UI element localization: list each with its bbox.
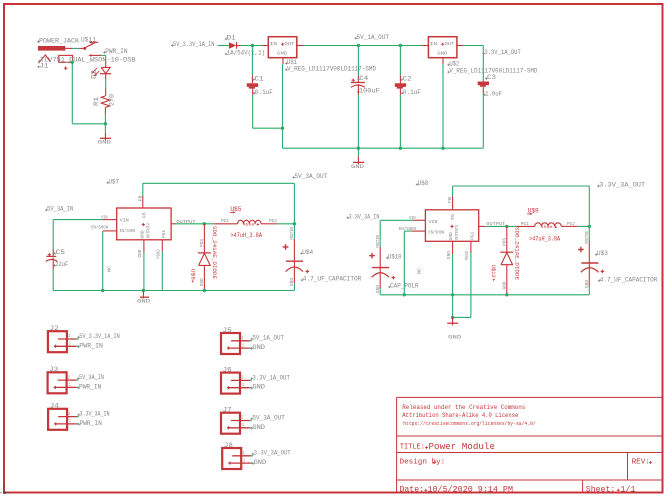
wire input to D1 (218, 45, 230, 47)
connector J8 polarity mark (229, 462, 231, 465)
U$7 EN/SHDN pad label (91, 226, 108, 231)
capacitor U$10 POSITIVE pad label (376, 234, 381, 247)
diode U$6 GND pad label (200, 278, 205, 286)
junction jack sleeve node (71, 61, 74, 64)
svg-text:C1: C1 (255, 75, 264, 82)
capacitor U$10 designator (386, 254, 402, 261)
capacitor C3 designator (485, 74, 496, 81)
net label 5V_3.3V_1A_IN (77, 333, 120, 340)
junction diode at rail2 (505, 293, 508, 296)
capacitor U$4 designator (300, 249, 313, 256)
wire junction to ground (104, 124, 106, 141)
svg-text:U$7: U$7 (109, 178, 120, 185)
diode D1 (229, 42, 241, 49)
svg-text:R1: R1 (93, 97, 100, 106)
U$7 inside GND vertical (141, 230, 146, 238)
capacitor C2 wire upper (399, 46, 401, 84)
connector J3 pin 2 line (58, 379, 78, 381)
capacitor C5 wire lower (52, 258, 54, 291)
U$2 GND pin wire (442, 58, 444, 149)
capacitor U$10 plus sign (369, 253, 375, 259)
wire to inductor conv2 (507, 225, 517, 227)
svg-text:GND: GND (447, 251, 452, 259)
sheet label (586, 484, 616, 494)
U$7 pin name EN/SHDN inside (120, 229, 136, 234)
wire PWR_IN to LED (101, 55, 106, 60)
connector J5 pin 1 line (227, 347, 252, 349)
capacitor C4 plates (351, 83, 365, 88)
origin marker bottom-left corner (1, 484, 12, 494)
svg-text:SDO_241AE_DIODE: SDO_241AE_DIODE (211, 226, 218, 280)
U$7 OUTPUT pad label (177, 219, 196, 225)
net label PWR_IN (103, 48, 128, 55)
U$7 PGND pad label (157, 249, 162, 259)
svg-text:C3: C3 (487, 74, 496, 81)
svg-text:Date:: Date: (400, 485, 425, 494)
capacitor C2 wire lower (399, 89, 401, 149)
connector J3 box (48, 372, 67, 393)
U$7 inside OUTPUT2 vertical (147, 223, 152, 238)
junction C4 tap (357, 44, 360, 47)
capacitor C2 value (401, 89, 421, 96)
net label GND (250, 344, 265, 351)
svg-text:OUT: OUT (445, 41, 455, 47)
junction U$2 gnd at rail (441, 147, 444, 150)
svg-text:C5: C5 (56, 249, 66, 256)
svg-text:270: 270 (109, 94, 116, 106)
svg-text:EN/SHDN: EN/SHDN (399, 227, 416, 232)
junction output node conv1 (293, 222, 296, 225)
wire FB corner conv2 (588, 186, 590, 226)
title block origin crosses (424, 446, 652, 492)
power jack pin 1 stub (65, 47, 72, 49)
svg-text:OUTPUT2: OUTPUT2 (147, 223, 152, 238)
connector J5 pad number 1 (242, 344, 244, 348)
inductor U$9 tiny name (541, 226, 558, 230)
capacitor C4 value 100uF (357, 87, 380, 94)
svg-text:>47uH_3.8A: >47uH_3.8A (529, 236, 560, 243)
svg-text:U$3: U$3 (597, 250, 608, 257)
connector J6 pin 2 line (231, 379, 252, 381)
junction C2 at rail (399, 147, 402, 150)
design by label (400, 459, 446, 467)
svg-text:3.3V_3A_OUT: 3.3V_3A_OUT (254, 450, 291, 457)
connector J3 pad number 2 (68, 376, 70, 380)
svg-text:GND: GND (290, 278, 295, 286)
svg-text:U$4: U$4 (302, 249, 313, 256)
inductor U$5 right stub (261, 223, 277, 225)
net label 5V_3A_OUT (292, 173, 327, 180)
svg-text:FB: FB (143, 212, 148, 218)
wire U$1 out to C4 (303, 45, 358, 47)
converter U$8 box (425, 210, 478, 242)
U$8 PGND pin wire (470, 241, 472, 317)
U$1 GND pin wire (282, 58, 285, 149)
capacitor U$4 top plate (286, 260, 303, 262)
svg-text:GND: GND (252, 424, 265, 431)
junction C4 at rail (357, 147, 360, 150)
ground symbol converter1 (137, 291, 150, 305)
inductor U$5 left stub (214, 223, 238, 225)
U$1 pin name OUT (284, 41, 294, 47)
capacitor U$10 upper wire (379, 220, 381, 267)
connector J2 box (48, 331, 67, 352)
capacitor U$10 arc plate (372, 273, 389, 278)
U$8 PGND pad label (465, 250, 470, 260)
LED D2 cathode bar (100, 73, 111, 75)
license text line 3 (403, 421, 536, 427)
license text line 2 (402, 412, 518, 419)
diode U$12 triangle (501, 253, 513, 265)
svg-text:POSITIVE: POSITIVE (290, 227, 295, 240)
origin cross of J1 (64, 66, 68, 70)
wire inductor to out corner (277, 223, 295, 225)
power jack sleeve triangle (39, 55, 51, 63)
svg-text:Sheet:: Sheet: (586, 484, 616, 494)
wire C2 to U$2 (400, 45, 428, 47)
svg-text:GND: GND (351, 164, 364, 170)
net label PWR_IN (77, 383, 102, 390)
diode U$12 lower wire (506, 265, 508, 295)
svg-text:EN/SHDN: EN/SHDN (91, 226, 108, 231)
net label 5V_3A_OUT (250, 414, 285, 421)
svg-text:GND: GND (449, 232, 454, 240)
svg-text:3.3V_1A_OUT: 3.3V_1A_OUT (252, 374, 290, 381)
U$8 origin cross (450, 225, 453, 228)
capacitor C5 plus sign (48, 253, 51, 256)
svg-text:5V_1A_OUT: 5V_1A_OUT (252, 335, 284, 342)
capacitor U$3 small plus (601, 270, 605, 274)
capacitor U$3 GND pad label (585, 280, 590, 288)
wire jack tip (72, 47, 79, 49)
svg-text:GND: GND (98, 139, 111, 145)
inductor U$9 right stub (561, 225, 577, 227)
capacitor C4 wire upper (357, 46, 359, 83)
inductor U$5 tiny name (243, 223, 260, 227)
capacitor U$4 upper wire (293, 224, 295, 261)
connector J2 polarity mark (55, 345, 57, 348)
U$8 FB pin stub (452, 197, 454, 210)
connector J8 box (222, 448, 241, 469)
svg-text:3.3V_3A_IN: 3.3V_3A_IN (80, 411, 110, 418)
svg-text:22uF: 22uF (55, 261, 68, 268)
svg-text:POSITIVE: POSITIVE (585, 231, 590, 244)
connector J8 pin 2 line (232, 455, 253, 457)
wire D1 to U$1 (241, 45, 253, 47)
svg-text:FB: FB (137, 195, 143, 201)
net label PWR_IN (77, 342, 103, 349)
diode U$12 designator (490, 265, 497, 282)
svg-text:D1: D1 (227, 35, 236, 42)
capacitor C1 value (253, 89, 273, 96)
capacitor U$4 POSITIVE pad label (290, 227, 295, 240)
net label 5V_3A_IN (77, 374, 104, 381)
svg-text:POSITIVE: POSITIVE (376, 234, 381, 247)
junction U$1 gnd / C1 (281, 127, 284, 130)
connector J1 designator U$11 (81, 37, 96, 44)
wire output to diode tap (177, 223, 205, 225)
svg-text:>47uH_3.8A: >47uH_3.8A (230, 232, 262, 239)
connector J7 designator (223, 407, 232, 414)
diode U$6 triangle (199, 253, 211, 265)
wire to U$1 IN pin (252, 45, 268, 47)
capacitor U$4 value (301, 276, 362, 283)
capacitor C5 designator (54, 249, 66, 256)
connector J8 pin 1 line (228, 462, 253, 464)
svg-text:GND: GND (200, 278, 205, 286)
svg-text:C4: C4 (359, 75, 368, 82)
connector J4 box (48, 409, 67, 430)
svg-text:GND: GND (252, 384, 265, 391)
date value (428, 484, 514, 494)
connector J7 pad number 2 (241, 417, 243, 421)
U$7 PGND pin wire (161, 240, 163, 291)
svg-text:J1: J1 (39, 62, 48, 69)
connector J2 pad number 1 (69, 343, 71, 347)
connector J3 pin 1 line (54, 386, 79, 388)
svg-text:U$9: U$9 (528, 208, 539, 215)
svg-text:PWR_IN: PWR_IN (105, 48, 128, 55)
U$2 pin name OUT (445, 41, 455, 47)
title text Power Module (429, 441, 496, 452)
svg-text:Released under the Creative Co: Released under the Creative Commons (402, 404, 525, 411)
junction EN at rail2 (403, 293, 406, 296)
power jack sleeve box (59, 55, 73, 62)
svg-text:NC: NC (107, 266, 113, 272)
svg-text:U$12: U$12 (490, 265, 497, 278)
net label 3.3V_3A_IN (78, 411, 110, 418)
net label NC converter1 (107, 266, 113, 272)
svg-text:EN/SHDN: EN/SHDN (120, 229, 136, 234)
connector J6 pad number 2 (241, 377, 243, 381)
connector J7 polarity mark (228, 426, 230, 429)
capacitor U$3 plus sign (578, 247, 584, 253)
connector J7 pin 2 line (231, 420, 252, 422)
inductor U$5 left pad label (221, 218, 229, 224)
U$7 pin name VIN inside (120, 217, 129, 223)
inductor U$9 value (529, 236, 560, 243)
capacitor C5 wire upper (52, 220, 54, 257)
U$2 pin name GND (437, 50, 447, 56)
svg-text:GND: GND (437, 50, 447, 56)
svg-text:PWR_IN: PWR_IN (80, 420, 103, 427)
diode U$12 value SDO_241AE_DIODE (514, 227, 521, 281)
capacitor C1 wire lower (253, 89, 283, 129)
svg-text:VIN: VIN (101, 216, 108, 221)
wire sleeve to ground rail (72, 62, 105, 124)
inductor U$9 designator (527, 208, 539, 216)
diode D1 designator (225, 35, 236, 42)
capacitor C2 plates (395, 83, 406, 88)
svg-text:EN/SHDN: EN/SHDN (429, 231, 445, 236)
net label NC converter2 (417, 268, 423, 274)
U$8 GND pin wire (452, 241, 454, 317)
capacitor U$4 lower wire (293, 262, 295, 291)
connector J7 box (221, 413, 240, 434)
svg-text:https://creativecommons.org/li: https://creativecommons.org/licenses/by-… (403, 421, 536, 427)
wire FB net converter1 (143, 183, 295, 196)
connector J4 pad number 2 (68, 413, 70, 417)
U$8 inside OUTPUT2 vertical (455, 225, 460, 240)
U$7 inside PG1 vertical (162, 230, 167, 238)
capacitor C4 designator (357, 75, 368, 82)
capacitor C5 plates (46, 256, 58, 261)
diode U$6 designator (190, 269, 197, 283)
U$7 inside FB vertical (143, 212, 148, 218)
svg-text:GND: GND (254, 459, 267, 466)
U$7 FB pin label (137, 195, 143, 201)
svg-text:REV:: REV: (632, 459, 650, 467)
inductor U$5 coil (238, 220, 262, 224)
diode D1 value 1A/54V(1,1) (225, 50, 266, 57)
svg-text:IN: IN (430, 41, 437, 47)
connector J5 designator (223, 327, 232, 334)
junction gnd at rail1 (142, 289, 145, 292)
U$7 origin cross (142, 223, 145, 226)
svg-text:POWER_JACK: POWER_JACK (39, 37, 79, 44)
converter U$7 box (117, 208, 171, 240)
svg-text:TLV751_DUAL_WSON-10-DSB: TLV751_DUAL_WSON-10-DSB (40, 57, 136, 64)
U$8 inside PG1 vertical (471, 231, 476, 239)
svg-text:FB: FB (447, 197, 453, 203)
title block outline (397, 397, 663, 492)
connector J2 designator (50, 325, 59, 332)
diode U$6 POS pad label (200, 239, 205, 247)
svg-text:5V_3A_OUT: 5V_3A_OUT (294, 173, 327, 180)
svg-text:GND: GND (585, 280, 590, 288)
inductor U$5 designator (230, 206, 242, 214)
diode U$12 cathode bar (500, 251, 513, 253)
wire to inductor (204, 223, 213, 225)
capacitor U$3 upper wire (588, 226, 590, 262)
connector J6 designator (223, 366, 232, 373)
regulator U$2 designator (447, 60, 459, 67)
U$8 EN pin wire (404, 231, 425, 295)
junction R1 bottom node (104, 122, 107, 125)
U$7 OUTPUT pin stub (171, 223, 176, 225)
net label 5V_3.3V_1A_IN (171, 41, 215, 48)
U$8 pin name VIN inside (429, 219, 438, 225)
net label 3.3V_1A_OUT (250, 374, 290, 381)
svg-text:OUT: OUT (284, 41, 294, 47)
connector J4 designator (50, 403, 59, 410)
svg-text:V_REG_LD1117V00LD1117-SMD: V_REG_LD1117V00LD1117-SMD (287, 65, 376, 72)
svg-text:U$5: U$5 (230, 206, 241, 213)
inductor U$5 right pad label (269, 218, 277, 224)
svg-text:1A/54V(1,1): 1A/54V(1,1) (227, 50, 266, 57)
regulator U$2 box (428, 37, 457, 58)
license text line 1 (402, 404, 525, 411)
svg-text:C2: C2 (403, 75, 412, 82)
svg-text:5V_3A_OUT: 5V_3A_OUT (252, 414, 285, 421)
capacitor U$3 designator (595, 250, 608, 257)
svg-text:D2: D2 (91, 70, 98, 79)
svg-text:FB: FB (451, 214, 456, 220)
wire inductor to out corner conv2 (577, 225, 589, 227)
capacitor U$4 plus sign (283, 244, 289, 250)
svg-text:Design by:: Design by: (400, 459, 446, 467)
wire VIN converter1 (53, 219, 116, 221)
connector J4 pin 1 line (54, 423, 79, 425)
connector J4 pad number 1 (69, 420, 71, 424)
svg-text:POS: POS (200, 239, 205, 247)
svg-text:10/5/2020 9:14 PM: 10/5/2020 9:14 PM (428, 484, 514, 494)
junction gnd loop (451, 316, 454, 319)
svg-text:5V_3A_IN: 5V_3A_IN (79, 374, 104, 381)
connector J8 pad number 1 (243, 459, 245, 463)
svg-text:GND: GND (137, 298, 150, 304)
capacitor U$4 arc plate (286, 267, 303, 272)
svg-text:PG2: PG2 (567, 221, 575, 227)
net label 5V_3A_IN (45, 206, 74, 213)
net label GND (250, 424, 265, 431)
junction C1 tap (251, 44, 254, 47)
connector J1 power jack name label (37, 37, 79, 44)
power jack J1 barrel body (38, 46, 65, 51)
wire FB net converter2 (453, 186, 590, 197)
svg-text:Power Module: Power Module (429, 441, 496, 452)
regulator U$1 designator (285, 59, 297, 66)
wire output to diode tap conv2 (485, 225, 507, 227)
svg-text:GND: GND (277, 50, 287, 56)
net label GND (252, 459, 267, 466)
junction diode U$6 tap (203, 222, 206, 225)
U$8 inside FB vertical (451, 214, 456, 220)
resistor R1 value 270 (109, 94, 116, 106)
wire gnd loop converter2 (453, 316, 471, 318)
LED D2 designator (91, 70, 98, 79)
capacitor U$3 lower wire (588, 263, 590, 294)
capacitor U$10 small plus (392, 276, 396, 280)
svg-text:GND: GND (141, 230, 146, 238)
capacitor C3 value (483, 90, 502, 97)
svg-text:U$8: U$8 (418, 180, 429, 187)
U$2 origin cross (441, 43, 444, 46)
svg-text:1.0uF: 1.0uF (485, 90, 502, 97)
inductor U$9 left pad label (521, 221, 529, 227)
connector J8 pad number 2 (243, 452, 245, 456)
svg-text:5V_1A_OUT: 5V_1A_OUT (357, 34, 390, 41)
capacitor C4 plus sign (352, 79, 355, 82)
svg-text:3.3V_3A_OUT: 3.3V_3A_OUT (599, 182, 645, 189)
svg-text:TITLE:: TITLE: (400, 444, 425, 452)
connector J8 designator (224, 442, 233, 449)
rev label (632, 459, 650, 467)
inductor U$9 coil (535, 223, 562, 227)
junction EN at rail1 (101, 289, 104, 292)
U$2 OUT pin stub (457, 45, 463, 47)
connector J5 pad number 2 (241, 337, 243, 341)
power jack pin 2 with arrowhead (88, 54, 101, 57)
svg-text:U$10: U$10 (388, 254, 402, 261)
ground rail regulators (283, 147, 484, 149)
inductor U$5 value (230, 232, 262, 239)
connector J2 pin 1 line (54, 345, 79, 347)
diode U$12 GND pad label (502, 281, 507, 289)
diode U$6 upper wire (203, 224, 205, 253)
U$8 GND pad label (447, 251, 452, 259)
connector J6 box (221, 373, 240, 394)
diode U$12 POS pad label (502, 238, 507, 246)
svg-text:5V_3.3V_1A_IN: 5V_3.3V_1A_IN (79, 333, 120, 340)
net label 3.3V_3A_IN (347, 213, 380, 220)
power jack pin 3 with arrowhead (89, 41, 99, 44)
converter U$8 designator (416, 180, 429, 187)
svg-text:OUTPUT2: OUTPUT2 (455, 225, 460, 240)
U$1 pin name GND (277, 50, 287, 56)
net label 5V_1A_OUT (355, 34, 390, 41)
sheet value (621, 484, 636, 494)
